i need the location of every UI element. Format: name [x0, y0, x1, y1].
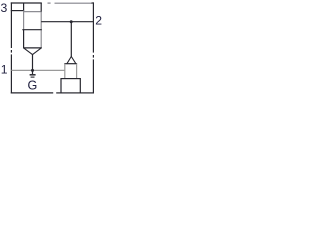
- gauge port G stub: [32, 70, 34, 74]
- wire bottom envelope edge (dash-dot): [11, 92, 94, 94]
- wire right envelope edge (port 2 branch, dash-dot): [92, 2, 94, 93]
- valve V1 left vertical upper dark segment: [23, 3, 25, 11]
- gauge port G lower bar: [31, 76, 35, 78]
- svg-text:3: 3: [1, 1, 8, 15]
- valve V1 left vertical middle gray segment: [23, 11, 25, 30]
- svg-text:2: 2: [95, 13, 102, 27]
- wire port 1 line: [11, 69, 64, 71]
- node junction dot on port 2 line: [70, 20, 73, 23]
- valve V1 right vertical gray segment: [40, 12, 42, 48]
- valve V1 mid divider: [22, 29, 42, 31]
- pilot chamber box top: [64, 63, 77, 65]
- valve V1 middle box top (gray): [24, 11, 42, 13]
- wire top envelope edge (dash-dot): [11, 2, 94, 4]
- wire poppet to port 1: [32, 54, 34, 70]
- pilot cone triangle: [67, 57, 76, 64]
- svg-text:G: G: [28, 79, 38, 93]
- pilot chamber box right side: [76, 64, 78, 79]
- gauge port G upper bar: [30, 74, 36, 76]
- svg-text:1: 1: [1, 63, 8, 77]
- valve V1 port-3 inlet divider: [11, 10, 24, 12]
- pedestal box: [61, 79, 80, 93]
- valve V1 left vertical lower dark segment: [23, 30, 25, 48]
- wire pilot line down: [70, 22, 72, 57]
- valve V1 poppet V: [24, 48, 42, 55]
- node junction dot at G branch: [31, 69, 34, 72]
- wire port 2 junction line: [41, 21, 93, 23]
- pilot chamber box left side: [64, 64, 66, 79]
- valve V1 seat base: [23, 47, 42, 49]
- valve V1 right vertical upper dark segment: [40, 3, 42, 12]
- wire left envelope edge (port 3 to port 1, dash-dot): [10, 2, 12, 93]
